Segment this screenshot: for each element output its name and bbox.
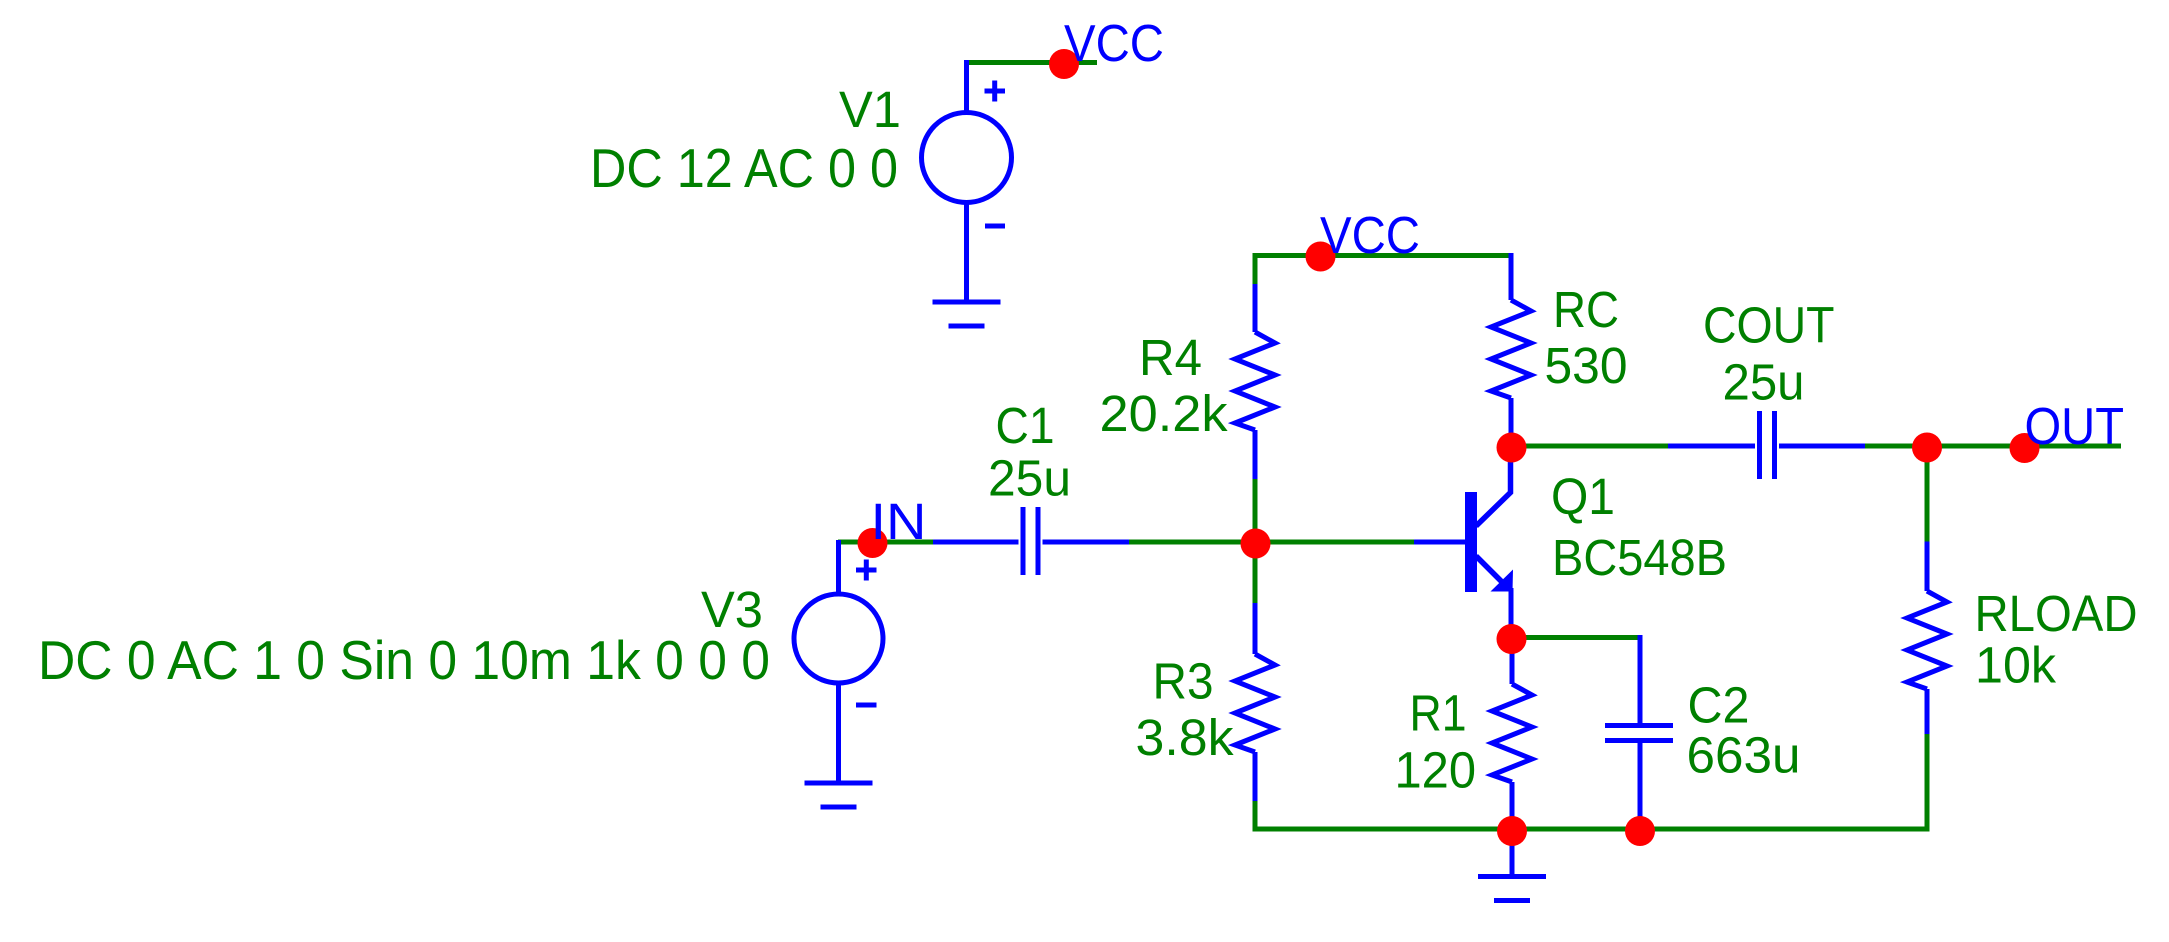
svg-text:530: 530 [1545, 337, 1628, 394]
capacitor C1 [933, 507, 1129, 575]
svg-text:RC: RC [1553, 281, 1619, 338]
wire R3 top stub from base junction [1253, 542, 1258, 605]
node RLOAD top junction dot [1912, 433, 1942, 463]
svg-text:25u: 25u [988, 450, 1071, 507]
svg-text:RLOAD: RLOAD [1975, 585, 2138, 642]
svg-text:R1: R1 [1410, 685, 1467, 742]
resistor R4 [1253, 284, 1258, 479]
transistor Q1 [1414, 448, 1513, 639]
svg-text:3.8k: 3.8k [1136, 709, 1234, 766]
ground at R1 [1478, 877, 1546, 901]
wire emitter to C2 top [1512, 635, 1640, 640]
svg-text:DC 0 AC 1 0 Sin 0 10m 1k 0 0 0: DC 0 AC 1 0 Sin 0 10m 1k 0 0 0 [38, 629, 770, 691]
node VCC junction dot at V1 [1049, 49, 1079, 79]
svg-text:IN: IN [871, 493, 927, 550]
wire R3 bottom along ground rail to RLOAD [1255, 801, 1927, 829]
node IN junction dot [858, 528, 888, 558]
voltage source V1 [922, 60, 1012, 300]
svg-text:663u: 663u [1687, 727, 1801, 784]
ground at V1 [933, 302, 1001, 326]
wire RLOAD top stub from OUT net [1925, 447, 1930, 544]
node OUT junction dot [2010, 433, 2040, 463]
svg-text:R4: R4 [1139, 329, 1202, 386]
ground at V3 [805, 783, 873, 807]
resistor RC [1509, 253, 1514, 448]
node emitter junction dot [1497, 624, 1527, 654]
svg-text:10k: 10k [1975, 637, 2056, 694]
voltage source V3 [794, 540, 883, 782]
svg-text:BC548B: BC548B [1552, 529, 1727, 586]
svg-text:DC 12 AC 0 0: DC 12 AC 0 0 [590, 137, 898, 199]
wire VCC net above R4 and RC [1253, 253, 1512, 258]
wire C1 to base junction to Q1 base [1129, 540, 1414, 545]
svg-text:Q1: Q1 [1551, 468, 1615, 525]
wire collector to COUT [1511, 444, 1670, 449]
node collector junction dot [1497, 433, 1527, 463]
svg-text:V1: V1 [839, 81, 901, 138]
resistor R1 [1510, 639, 1515, 829]
wire RLOAD bottom to ground rail [1925, 734, 1930, 832]
svg-text:C1: C1 [996, 397, 1055, 454]
svg-text:OUT: OUT [2025, 398, 2125, 456]
node base junction dot [1241, 529, 1271, 559]
svg-text:120: 120 [1395, 742, 1477, 799]
capacitor C2 [1605, 635, 1673, 829]
wire R4 bottom to base junction [1253, 479, 1258, 545]
wire IN net from V3 to C1 [838, 540, 935, 545]
wire COUT to OUT net [1865, 444, 2121, 449]
wire R1 bottom to ground symbol [1510, 830, 1515, 876]
node R1-ground junction dot [1497, 816, 1527, 846]
capacitor COUT [1668, 411, 1865, 479]
svg-text:25u: 25u [1723, 354, 1805, 411]
resistor RLOAD [1925, 542, 1930, 737]
node C2-ground junction dot [1625, 816, 1655, 846]
resistor R3 [1253, 603, 1258, 801]
svg-text:VCC: VCC [1064, 15, 1164, 73]
wire R4 top stub [1253, 253, 1258, 286]
node VCC junction dot 2 [1306, 242, 1336, 272]
svg-text:VCC: VCC [1320, 207, 1420, 265]
svg-text:20.2k: 20.2k [1100, 385, 1229, 442]
svg-text:R3: R3 [1153, 653, 1214, 710]
svg-text:C2: C2 [1688, 677, 1750, 734]
svg-text:COUT: COUT [1703, 297, 1835, 354]
wire VCC net from V1 plus terminal [966, 60, 1097, 65]
